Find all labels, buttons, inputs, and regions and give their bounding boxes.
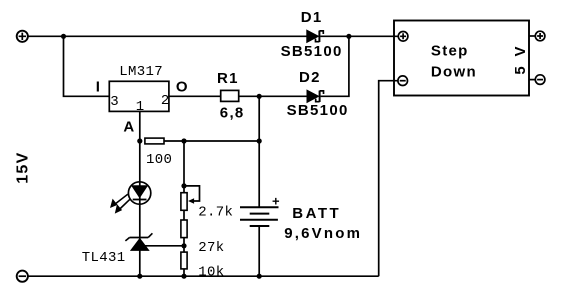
- wire D2 cathode up to D1 junction: [321, 36, 349, 96]
- node junction at battery column top: [257, 94, 262, 99]
- svg-text:D1: D1: [301, 9, 323, 26]
- resistor 27k: [181, 220, 187, 238]
- svg-text:D2: D2: [299, 69, 321, 86]
- svg-text:Step: Step: [431, 43, 469, 60]
- svg-text:27k: 27k: [198, 240, 224, 256]
- node junction pot top feed: [181, 138, 186, 143]
- LED light arrow 2: [115, 199, 131, 214]
- terminal - (15V input, bottom-left): [17, 271, 28, 282]
- terminal + (15V input, top-left): [17, 31, 28, 42]
- potentiometer 2.7k body: [181, 193, 187, 211]
- wire 27k to 10k: [183, 238, 185, 253]
- svg-text:O: O: [176, 78, 189, 95]
- resistor R1: [221, 90, 239, 101]
- zener/reference TL431: [125, 233, 152, 250]
- svg-text:BATT: BATT: [292, 205, 341, 222]
- svg-text:+: +: [272, 193, 280, 208]
- node junction TL431 bottom: [137, 274, 142, 279]
- wire D1 cathode to StepDown +: [320, 35, 398, 37]
- svg-text:Down: Down: [431, 64, 477, 81]
- wire pot to 27k: [183, 210, 185, 220]
- resistor 10k: [181, 252, 187, 269]
- resistor 100: [145, 138, 164, 144]
- node junction D1/D2: [346, 34, 351, 39]
- battery BATT: [240, 207, 279, 226]
- svg-text:15V: 15V: [14, 151, 31, 183]
- wire battery column top: [258, 96, 260, 207]
- node junction 27k/10k divider: [181, 243, 186, 248]
- svg-text:100: 100: [146, 152, 172, 168]
- wire StepDown - down to bottom rail: [379, 81, 398, 277]
- svg-text:2.7k: 2.7k: [198, 205, 233, 221]
- svg-text:6,8: 6,8: [220, 105, 245, 122]
- svg-text:SB5100: SB5100: [281, 43, 343, 60]
- node junction battery top feed: [257, 138, 262, 143]
- wire down to potentiometer: [183, 141, 185, 193]
- terminal - (5V output): [529, 75, 545, 85]
- diode D2 SB5100 (schottky): [307, 90, 324, 102]
- LED D3: [128, 182, 150, 204]
- wire top rail left segment: [28, 35, 307, 37]
- wire from top rail down to LM317 input: [64, 36, 110, 96]
- wire 100 resistor to battery column: [164, 140, 259, 142]
- terminal + (5V output): [529, 31, 545, 41]
- wire battery bottom: [258, 226, 260, 276]
- Step Down converter box U2: [394, 21, 529, 96]
- svg-text:TL431: TL431: [82, 250, 126, 266]
- wire R1 to D2 anode: [239, 95, 307, 97]
- svg-text:2: 2: [161, 93, 170, 109]
- potentiometer wiper arrow: [184, 186, 200, 204]
- LED light arrow 1: [110, 194, 128, 208]
- wire LM317 A pin down: [139, 111, 141, 276]
- node junction 10k bottom: [181, 274, 186, 279]
- svg-text:3: 3: [110, 94, 119, 110]
- svg-text:SB5100: SB5100: [287, 102, 349, 119]
- wire TL431 ref to divider: [145, 245, 185, 247]
- wire LM317 output to R1: [169, 95, 221, 97]
- diode D1 SB5100 (schottky, on top rail): [307, 30, 324, 42]
- svg-text:9,6Vnom: 9,6Vnom: [284, 225, 362, 242]
- node junction battery bottom: [257, 274, 262, 279]
- svg-text:I: I: [96, 78, 101, 95]
- svg-text:5 V: 5 V: [512, 44, 529, 75]
- wire 10k to bottom rail: [183, 269, 185, 276]
- node junction pot wiper: [181, 183, 186, 188]
- wire bottom rail: [28, 275, 379, 277]
- terminal + (StepDown input): [398, 32, 408, 42]
- op-amp U1 LM317 regulator box: [109, 81, 169, 111]
- svg-text:10k: 10k: [198, 264, 224, 280]
- terminal - (StepDown input): [398, 76, 408, 86]
- node junction top-left: [61, 34, 66, 39]
- svg-text:A: A: [123, 118, 135, 135]
- svg-text:LM317: LM317: [119, 64, 163, 80]
- svg-text:R1: R1: [217, 70, 239, 87]
- node junction A: [137, 138, 142, 143]
